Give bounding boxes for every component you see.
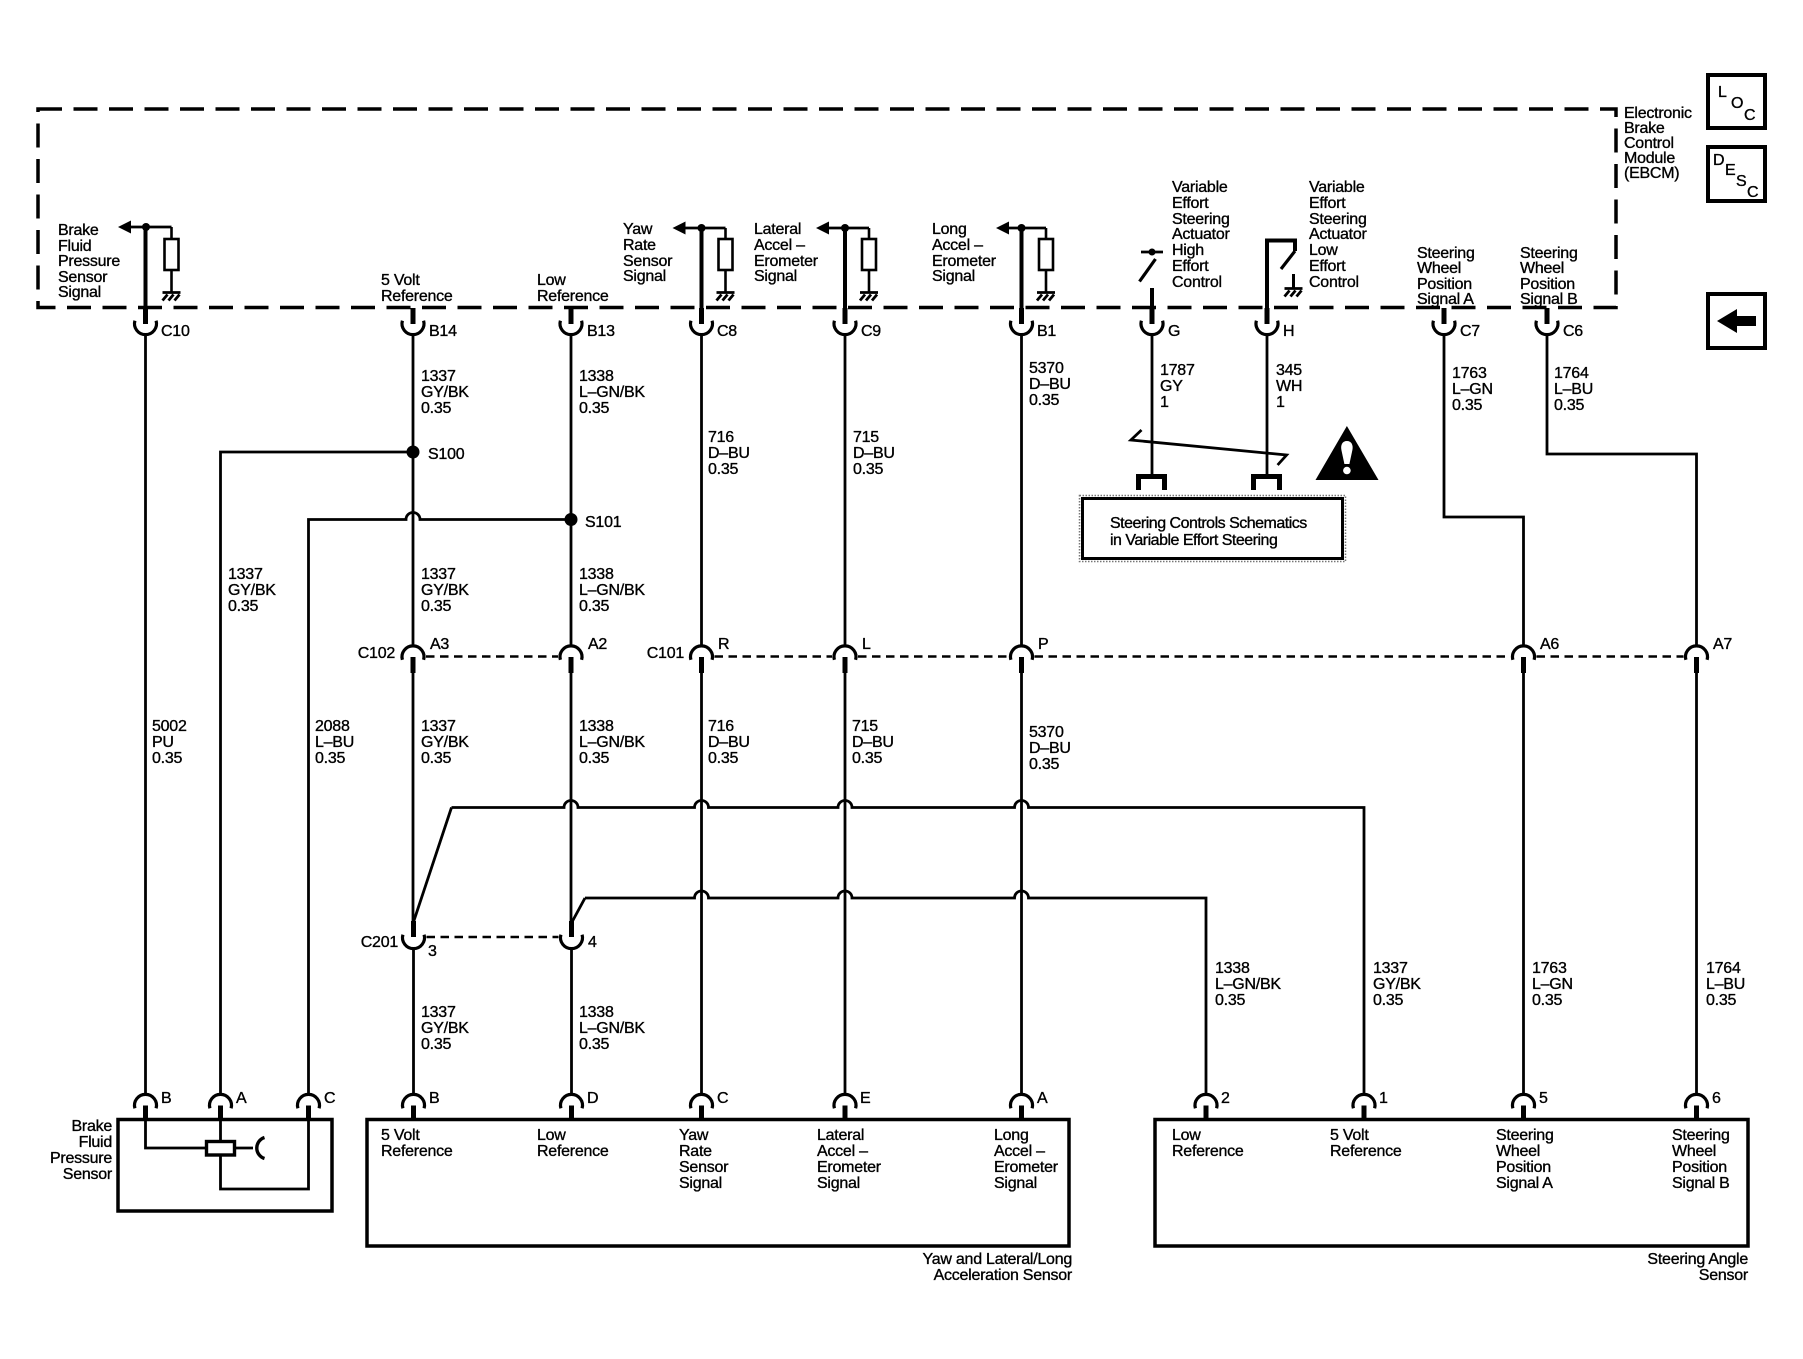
svg-text:Control: Control xyxy=(1172,274,1222,291)
svg-text:Accel –: Accel – xyxy=(994,1143,1045,1160)
wire label 1337 GY/BK (S100 branch) xyxy=(228,566,276,615)
svg-text:Lateral: Lateral xyxy=(817,1127,864,1144)
svg-text:A2: A2 xyxy=(588,636,607,653)
svg-text:B1: B1 xyxy=(1037,323,1056,340)
svg-text:R: R xyxy=(718,636,729,653)
svg-text:Reference: Reference xyxy=(537,1143,609,1160)
svg-text:Effort: Effort xyxy=(1309,258,1346,275)
svg-text:Reference: Reference xyxy=(381,1143,453,1160)
svg-text:0.35: 0.35 xyxy=(421,1036,451,1053)
svg-text:0.35: 0.35 xyxy=(1373,992,1403,1009)
svg-text:S: S xyxy=(1736,173,1746,190)
svg-text:Long: Long xyxy=(932,221,967,238)
svg-text:1338: 1338 xyxy=(1215,960,1250,977)
svg-text:1337: 1337 xyxy=(421,368,456,385)
svg-text:1763: 1763 xyxy=(1532,960,1567,977)
LOC box xyxy=(1708,75,1765,128)
C102 dashed mate line xyxy=(426,655,558,658)
svg-text:D–BU: D–BU xyxy=(853,445,895,462)
svg-text:Effort: Effort xyxy=(1172,195,1209,212)
svg-text:0.35: 0.35 xyxy=(579,598,609,615)
label: Lateral Accelerometer Signal (C9) xyxy=(754,221,819,285)
svg-text:S101: S101 xyxy=(585,514,622,531)
label: Low Reference (B13) xyxy=(537,272,609,305)
switch G (high effort control) xyxy=(1140,249,1164,310)
label: VES Actuator Low Effort Control (H) xyxy=(1309,179,1368,291)
svg-text:2: 2 xyxy=(1221,1090,1230,1107)
resistor (lateral accel pull) xyxy=(862,228,876,292)
yaw rate signal arrow + node xyxy=(673,222,726,235)
ground (switch H) xyxy=(1285,289,1303,297)
svg-text:C10: C10 xyxy=(161,323,190,340)
svg-text:A6: A6 xyxy=(1540,636,1559,653)
lateral accel arrow + node xyxy=(816,222,869,235)
svg-text:5: 5 xyxy=(1539,1090,1548,1107)
brake fluid signal arrow + node xyxy=(118,221,172,234)
svg-text:715: 715 xyxy=(853,429,879,446)
svg-text:0.35: 0.35 xyxy=(579,1036,609,1053)
connector C9 xyxy=(834,308,881,340)
svg-text:Signal: Signal xyxy=(754,268,797,285)
svg-text:0.35: 0.35 xyxy=(579,750,609,767)
svg-text:Position: Position xyxy=(1672,1159,1727,1176)
svg-text:Signal: Signal xyxy=(679,1175,722,1192)
svg-text:C6: C6 xyxy=(1563,323,1583,340)
svg-text:Steering Controls Schematics: Steering Controls Schematics xyxy=(1110,515,1307,532)
wire C8 down xyxy=(700,335,703,647)
wire label 716 D-BU (C8) xyxy=(708,429,750,478)
wire label 1337 GY/BK (A3 run) xyxy=(421,718,469,767)
label: Steering Wheel Position Signal A (C7) xyxy=(1417,245,1475,308)
label: Steering Wheel Position Signal B (C6) xyxy=(1520,245,1578,308)
svg-text:L–BU: L–BU xyxy=(1706,976,1745,993)
svg-text:1338: 1338 xyxy=(579,718,614,735)
label: Long Accelerometer Signal (B1) xyxy=(932,221,997,285)
svg-text:C7: C7 xyxy=(1460,323,1480,340)
wire C201-4 to yaw sensor pin D xyxy=(570,949,573,1095)
connector pin B (brake sensor) xyxy=(135,1090,172,1121)
label: Steering Wheel Position Signal A (pin 5) xyxy=(1496,1127,1554,1192)
svg-text:Yaw: Yaw xyxy=(623,221,653,238)
svg-text:Position: Position xyxy=(1496,1159,1551,1176)
connector C101 pin A6 xyxy=(1512,636,1559,673)
svg-text:GY/BK: GY/BK xyxy=(228,582,276,599)
svg-text:C: C xyxy=(1744,107,1755,124)
svg-text:Signal B: Signal B xyxy=(1520,291,1578,308)
svg-text:B13: B13 xyxy=(587,323,615,340)
caption: Steering Angle Sensor xyxy=(1647,1251,1748,1284)
ground (brake fluid pull) xyxy=(163,293,181,301)
svg-text:L–GN/BK: L–GN/BK xyxy=(579,582,645,599)
svg-text:GY: GY xyxy=(1160,378,1183,395)
wire label 1338 L-GN/BK (pin 2 run) xyxy=(1215,960,1281,1009)
label: Low Reference (pin D) xyxy=(537,1127,609,1160)
svg-text:Rate: Rate xyxy=(679,1143,712,1160)
svg-text:Variable: Variable xyxy=(1172,179,1228,196)
svg-text:1: 1 xyxy=(1160,394,1169,411)
C101 dashed mate line R-L xyxy=(715,655,833,658)
svg-text:H: H xyxy=(1283,323,1294,340)
label: Low Reference (pin 2) xyxy=(1172,1127,1244,1160)
C101 dashed mate line P-A6 xyxy=(1035,655,1511,658)
svg-text:Accel –: Accel – xyxy=(817,1143,868,1160)
ground (yaw rate pull) xyxy=(717,293,735,301)
connector C101 pin A7 xyxy=(1686,636,1733,673)
svg-text:5 Volt: 5 Volt xyxy=(381,1127,420,1144)
ground (long accel pull) xyxy=(1037,293,1055,301)
svg-text:5 Volt: 5 Volt xyxy=(1330,1127,1369,1144)
wire B1 drop inside EBCM xyxy=(1020,228,1024,309)
label: Yaw Rate Sensor Signal (pin C) xyxy=(679,1127,729,1192)
pressure sensing element (resistor) xyxy=(207,1142,235,1156)
wire C10 drop inside EBCM xyxy=(144,227,148,309)
wire label 715 D-BU (L run) xyxy=(852,718,894,767)
svg-text:0.35: 0.35 xyxy=(853,461,883,478)
svg-text:Brake: Brake xyxy=(71,1118,112,1135)
svg-text:WH: WH xyxy=(1276,378,1302,395)
svg-text:Pressure: Pressure xyxy=(58,253,120,270)
wire label 1338 L-GN/BK (C201-4 run) xyxy=(579,1004,645,1053)
svg-text:1: 1 xyxy=(1379,1090,1388,1107)
connector pin 5 (steering sensor) xyxy=(1512,1090,1548,1121)
connector H xyxy=(1256,308,1294,340)
svg-text:1337: 1337 xyxy=(421,566,456,583)
svg-text:0.35: 0.35 xyxy=(1029,756,1059,773)
svg-text:Low: Low xyxy=(537,1127,566,1144)
wire label 1338 L-GN/BK (A2 run) xyxy=(579,718,645,767)
svg-text:in Variable Effort Steering: in Variable Effort Steering xyxy=(1110,532,1277,549)
svg-text:Rate: Rate xyxy=(623,237,656,254)
switch H (low effort control) xyxy=(1267,241,1295,310)
label: VES Actuator High Effort Control (G) xyxy=(1172,179,1231,291)
svg-text:C101: C101 xyxy=(647,645,685,662)
svg-text:GY/BK: GY/BK xyxy=(1373,976,1421,993)
connector C7 xyxy=(1433,308,1480,340)
pressure sensing element (crescent) xyxy=(257,1138,265,1159)
svg-text:E: E xyxy=(860,1090,870,1107)
svg-text:5002: 5002 xyxy=(152,718,187,735)
svg-text:Fluid: Fluid xyxy=(79,1134,112,1151)
svg-text:Steering: Steering xyxy=(1672,1127,1730,1144)
svg-text:Steering Angle: Steering Angle xyxy=(1647,1251,1748,1268)
svg-text:GY/BK: GY/BK xyxy=(421,384,469,401)
back-arrow box xyxy=(1708,294,1765,348)
connector pin 6 (steering sensor) xyxy=(1686,1090,1722,1121)
svg-text:0.35: 0.35 xyxy=(1532,992,1562,1009)
resistor (long accel pull) xyxy=(1039,228,1053,292)
svg-text:C: C xyxy=(1747,184,1758,201)
svg-text:A: A xyxy=(1037,1090,1048,1107)
svg-text:P: P xyxy=(1038,636,1048,653)
svg-text:L–GN/BK: L–GN/BK xyxy=(579,384,645,401)
svg-text:Reference: Reference xyxy=(381,288,453,305)
svg-text:A7: A7 xyxy=(1713,636,1732,653)
svg-text:0.35: 0.35 xyxy=(1029,392,1059,409)
wire label 1763 L-GN (C7) xyxy=(1452,365,1493,414)
svg-text:Low: Low xyxy=(537,272,566,289)
wire S101 branch to pin C (hop over B14 wire) xyxy=(309,513,572,1095)
connector pin E (yaw sensor) xyxy=(834,1090,870,1121)
brake fluid pressure sensor box xyxy=(118,1120,332,1212)
svg-text:B14: B14 xyxy=(429,323,457,340)
svg-text:1338: 1338 xyxy=(579,1004,614,1021)
terminal tab (H lead) xyxy=(1254,477,1280,491)
svg-text:2088: 2088 xyxy=(315,718,350,735)
label: Brake Fluid Pressure Sensor xyxy=(50,1118,113,1183)
connector C201 pin 3 xyxy=(361,921,437,960)
svg-text:C9: C9 xyxy=(861,323,881,340)
ground (lateral accel pull) xyxy=(860,293,878,301)
svg-text:High: High xyxy=(1172,242,1204,259)
svg-text:Wheel: Wheel xyxy=(1672,1143,1716,1160)
svg-text:Wheel: Wheel xyxy=(1496,1143,1540,1160)
connector C101 pin R xyxy=(647,636,730,673)
svg-text:Signal: Signal xyxy=(994,1175,1037,1192)
wire C7 jog to A6 xyxy=(1444,335,1524,647)
terminal tab (G lead) xyxy=(1139,477,1165,491)
svg-text:C: C xyxy=(717,1090,728,1107)
svg-text:Control: Control xyxy=(1309,274,1359,291)
wire C6 jog to A7 xyxy=(1547,335,1697,647)
wire C9 drop inside EBCM xyxy=(843,228,847,309)
svg-text:C: C xyxy=(324,1090,335,1107)
svg-text:716: 716 xyxy=(708,429,734,446)
wire G to steering controls tab xyxy=(1151,335,1154,476)
connector C102 pin A2 xyxy=(560,636,607,673)
svg-text:L–GN/BK: L–GN/BK xyxy=(1215,976,1281,993)
connector pin C (brake sensor) xyxy=(298,1090,336,1121)
wire label 345 WH 1 (H) xyxy=(1276,362,1302,411)
connector B13 xyxy=(560,308,615,340)
svg-text:E: E xyxy=(1725,162,1735,179)
svg-text:0.35: 0.35 xyxy=(228,598,258,615)
connector C101 pin L xyxy=(834,636,871,673)
svg-text:D: D xyxy=(1713,152,1724,169)
svg-text:L: L xyxy=(862,636,871,653)
svg-text:L: L xyxy=(1718,84,1727,101)
svg-text:B: B xyxy=(161,1090,171,1107)
svg-text:L–GN/BK: L–GN/BK xyxy=(579,1020,645,1037)
svg-text:0.35: 0.35 xyxy=(1554,397,1584,414)
svg-text:B: B xyxy=(429,1090,439,1107)
svg-text:Signal: Signal xyxy=(58,284,101,301)
svg-text:Reference: Reference xyxy=(1330,1143,1402,1160)
5V reference bus to steering sensor pin 1 (hops B13,C8,C9,B1) xyxy=(452,801,1365,1095)
svg-text:Wheel: Wheel xyxy=(1520,260,1564,277)
svg-text:Sensor: Sensor xyxy=(1699,1267,1749,1284)
svg-text:Yaw and Lateral/Long: Yaw and Lateral/Long xyxy=(923,1251,1072,1268)
svg-text:Wheel: Wheel xyxy=(1417,260,1461,277)
splice S101 xyxy=(565,513,622,531)
svg-text:0.35: 0.35 xyxy=(1706,992,1736,1009)
wire P down to yaw sensor pin A xyxy=(1020,673,1023,1095)
svg-text:A: A xyxy=(236,1090,247,1107)
connector pin B (yaw sensor) xyxy=(403,1090,440,1121)
svg-text:5370: 5370 xyxy=(1029,724,1064,741)
connector pin D (yaw sensor) xyxy=(561,1090,599,1121)
connector B1 xyxy=(1010,308,1056,340)
svg-text:5 Volt: 5 Volt xyxy=(381,272,420,289)
svg-text:0.35: 0.35 xyxy=(421,598,451,615)
wire A7 down to steering sensor pin 6 xyxy=(1695,673,1698,1095)
svg-text:Signal A: Signal A xyxy=(1417,291,1474,308)
svg-text:Variable: Variable xyxy=(1309,179,1365,196)
svg-text:716: 716 xyxy=(708,718,734,735)
wire B1 down xyxy=(1020,335,1023,647)
svg-text:Erometer: Erometer xyxy=(817,1159,882,1176)
label: Steering Wheel Position Signal B (pin 6) xyxy=(1672,1127,1730,1192)
svg-text:D–BU: D–BU xyxy=(1029,740,1071,757)
svg-text:3: 3 xyxy=(428,943,437,960)
wire B14 down xyxy=(412,335,415,647)
wire label 1337 GY/BK (B14) xyxy=(421,368,469,417)
warning triangle xyxy=(1316,426,1379,480)
svg-text:0.35: 0.35 xyxy=(421,400,451,417)
low reference bus to steering sensor pin 2 (hops C8,C9,B1) xyxy=(585,891,1206,1095)
C101 dashed mate line L-P xyxy=(858,655,1009,658)
connector B14 xyxy=(402,308,457,340)
svg-text:1337: 1337 xyxy=(421,1004,456,1021)
svg-text:1338: 1338 xyxy=(579,566,614,583)
svg-text:L–GN/BK: L–GN/BK xyxy=(579,734,645,751)
svg-text:Effort: Effort xyxy=(1309,195,1346,212)
svg-text:O: O xyxy=(1731,95,1743,112)
label: Brake Fluid Pressure Sensor Signal xyxy=(58,222,120,301)
svg-text:0.35: 0.35 xyxy=(708,461,738,478)
label: Lateral Accelerometer Signal (pin E) xyxy=(817,1127,882,1192)
svg-text:Effort: Effort xyxy=(1172,258,1209,275)
svg-text:Reference: Reference xyxy=(1172,1143,1244,1160)
svg-text:G: G xyxy=(1168,323,1180,340)
svg-text:1338: 1338 xyxy=(579,368,614,385)
twisted-lead pointer line xyxy=(1131,430,1287,465)
svg-text:Pressure: Pressure xyxy=(50,1150,112,1167)
wire label 1787 GY 1 (G) xyxy=(1160,362,1195,411)
svg-text:5370: 5370 xyxy=(1029,360,1064,377)
wire C201-3 to yaw sensor pin B xyxy=(412,949,415,1095)
svg-text:Signal A: Signal A xyxy=(1496,1175,1553,1192)
EBCM module name label xyxy=(1624,105,1692,182)
wire H to steering controls tab xyxy=(1266,335,1269,476)
svg-text:Low: Low xyxy=(1309,242,1338,259)
connector pin C (yaw sensor) xyxy=(691,1090,729,1121)
wire S100 branch to pin A xyxy=(221,452,414,1095)
steering controls reference box xyxy=(1080,496,1346,562)
connector C201 pin 4 xyxy=(561,921,598,951)
caption: Yaw and Lateral/Long Acceleration Sensor xyxy=(923,1251,1073,1284)
connector C101 pin P xyxy=(1010,636,1048,673)
svg-text:1337: 1337 xyxy=(228,566,263,583)
svg-text:C8: C8 xyxy=(717,323,737,340)
EBCM dashed box xyxy=(38,109,1616,308)
svg-text:0.35: 0.35 xyxy=(852,750,882,767)
svg-text:0.35: 0.35 xyxy=(1452,397,1482,414)
label: Yaw Rate Sensor Signal (C8) xyxy=(623,221,673,285)
connector C8 xyxy=(691,308,738,340)
svg-text:Signal: Signal xyxy=(932,268,975,285)
wire A3 down to C201 pin 3 xyxy=(412,673,415,922)
svg-text:D–BU: D–BU xyxy=(1029,376,1071,393)
diagonal into C201 pin 3 xyxy=(414,808,452,923)
svg-text:Lateral: Lateral xyxy=(754,221,801,238)
svg-text:1337: 1337 xyxy=(1373,960,1408,977)
svg-text:1337: 1337 xyxy=(421,718,456,735)
resistor (yaw rate pull) xyxy=(719,228,733,292)
svg-text:GY/BK: GY/BK xyxy=(421,1020,469,1037)
wire label 1337 GY/BK (pin 1 run) xyxy=(1373,960,1421,1009)
wire label 1338 L-GN/BK (B13) xyxy=(579,368,645,417)
svg-text:C102: C102 xyxy=(358,645,396,662)
wire label 1763 L-GN (pin 5 run) xyxy=(1532,960,1573,1009)
wire label 5370 D-BU (P run) xyxy=(1029,724,1071,773)
svg-text:Low: Low xyxy=(1172,1127,1201,1144)
wire label 1337 GY/BK (B14 mid) xyxy=(421,566,469,615)
svg-text:L–GN: L–GN xyxy=(1532,976,1573,993)
svg-text:L–GN: L–GN xyxy=(1452,381,1493,398)
svg-text:Actuator: Actuator xyxy=(1172,226,1231,243)
wire B13 down xyxy=(570,335,573,647)
svg-text:Brake: Brake xyxy=(58,222,99,239)
wire label 715 D-BU (C9) xyxy=(853,429,895,478)
svg-text:Signal: Signal xyxy=(817,1175,860,1192)
wire label 5002 PU (C10 run) xyxy=(152,718,187,767)
connector pin 1 (steering sensor) xyxy=(1353,1090,1388,1121)
wire A6 down to steering sensor pin 5 xyxy=(1522,673,1525,1095)
svg-text:0.35: 0.35 xyxy=(315,750,345,767)
splice S100 xyxy=(407,446,465,464)
wire label 5370 D-BU (B1) xyxy=(1029,360,1071,409)
svg-text:PU: PU xyxy=(152,734,174,751)
svg-text:Long: Long xyxy=(994,1127,1029,1144)
svg-text:1787: 1787 xyxy=(1160,362,1195,379)
yaw and lateral/long acceleration sensor box xyxy=(367,1120,1069,1247)
svg-text:Steering: Steering xyxy=(1496,1127,1554,1144)
svg-text:Erometer: Erometer xyxy=(994,1159,1059,1176)
svg-text:Yaw: Yaw xyxy=(679,1127,709,1144)
connector pin A (yaw sensor) xyxy=(1011,1090,1048,1121)
svg-text:D–BU: D–BU xyxy=(708,734,750,751)
svg-text:Sensor: Sensor xyxy=(679,1159,729,1176)
svg-text:0.35: 0.35 xyxy=(708,750,738,767)
label: 5 Volt Reference (B14) xyxy=(381,272,453,305)
svg-text:D–BU: D–BU xyxy=(852,734,894,751)
svg-text:S100: S100 xyxy=(428,446,465,463)
connector pin A (brake sensor) xyxy=(210,1090,247,1121)
long accel arrow + node xyxy=(996,222,1046,235)
svg-text:4: 4 xyxy=(588,934,597,951)
wire label 1337 GY/BK (C201-3 run) xyxy=(421,1004,469,1053)
wire label 2088 L-BU (pin C run) xyxy=(315,718,354,767)
wire label 716 D-BU (R run) xyxy=(708,718,750,767)
svg-text:0.35: 0.35 xyxy=(421,750,451,767)
svg-text:Sensor: Sensor xyxy=(63,1166,113,1183)
svg-text:Actuator: Actuator xyxy=(1309,226,1368,243)
svg-text:Accel –: Accel – xyxy=(932,237,983,254)
svg-text:D–BU: D–BU xyxy=(708,445,750,462)
svg-text:1: 1 xyxy=(1276,394,1285,411)
wire label 1764 L-BU (C6) xyxy=(1554,365,1593,414)
C201 dashed mate line xyxy=(427,936,559,939)
label: 5 Volt Reference (pin 1) xyxy=(1330,1127,1402,1160)
wire C10 to brake sensor pin B xyxy=(144,335,147,1095)
svg-text:A3: A3 xyxy=(430,636,449,653)
C101 dashed mate line A6-A7 xyxy=(1537,655,1684,658)
svg-text:6: 6 xyxy=(1712,1090,1721,1107)
wire C9 down xyxy=(844,335,847,647)
label: Long Accelerometer Signal (pin A) xyxy=(994,1127,1059,1192)
wire A2 down to C201 pin 4 xyxy=(570,673,573,922)
svg-text:0.35: 0.35 xyxy=(152,750,182,767)
